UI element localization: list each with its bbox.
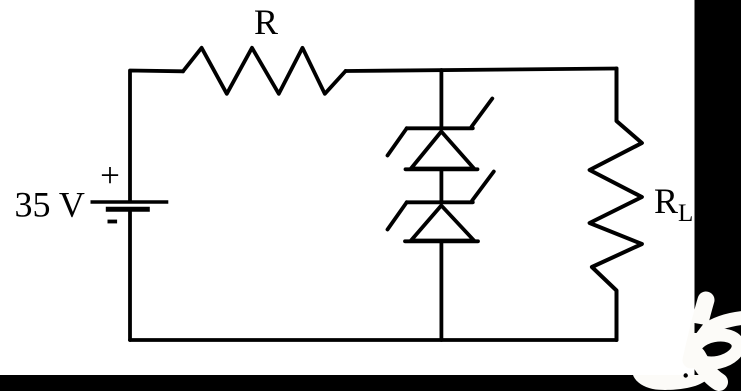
zener diode D2 [388, 172, 494, 242]
svg-text:R: R [254, 2, 278, 42]
resistor R [183, 48, 346, 94]
wire: middle branch from node A down to zener D1 [439, 70, 443, 128]
svg-text:35 V: 35 V [15, 184, 85, 224]
wire: top-left from battery + to resistor R [130, 71, 183, 201]
wire: left vertical below battery [128, 211, 132, 340]
label: battery - [108, 220, 118, 224]
zener diode D1 [388, 99, 493, 170]
wire: between zener D1 and zener D2 [439, 169, 443, 201]
wire: bottom from battery - to RL bottom [130, 338, 617, 342]
battery V1 35 V [91, 202, 169, 209]
wire: middle branch from D2 to bottom wire [439, 242, 443, 341]
svg-text:+: + [100, 156, 120, 195]
wire: top from R to node A and RL corner [346, 69, 617, 72]
resistor RL with connecting wires [590, 69, 642, 341]
